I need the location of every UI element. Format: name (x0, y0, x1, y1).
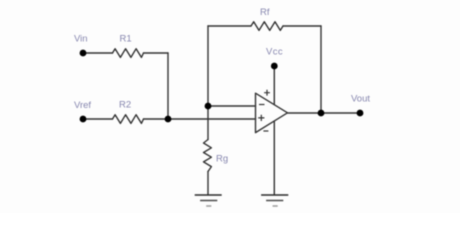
wire top left to Rf (208, 25, 251, 27)
resistor Rg (204, 140, 212, 172)
node output junction (318, 110, 325, 117)
resistor R1 (113, 49, 144, 58)
wire feedback right vertical (320, 26, 322, 113)
svg-text:Rg: Rg (216, 154, 228, 165)
op-amp - input symbol (259, 104, 265, 106)
resistor Rf (251, 22, 283, 31)
ground (Rg) (195, 195, 222, 206)
node A junction (R1/R2) (165, 116, 172, 123)
wire corner down to node A (167, 53, 169, 119)
wire Vref to R2 (83, 118, 113, 120)
resistor R2 (113, 115, 144, 124)
node Vout terminal (357, 110, 364, 117)
wire Vcc to op-amp (273, 66, 275, 105)
wire R1 to corner (144, 52, 169, 54)
op-amp V+ supply symbol (264, 90, 270, 96)
svg-text:R1: R1 (120, 33, 132, 44)
wire feedback left vertical (207, 26, 209, 140)
node Vin terminal (80, 50, 87, 57)
op-amp U1 triangle (256, 93, 288, 132)
wire Rg to ground (207, 172, 209, 195)
svg-text:Vref: Vref (74, 100, 91, 111)
op-amp + input symbol (258, 115, 264, 121)
wire op-amp to ground (273, 122, 275, 195)
wire output (288, 112, 361, 114)
svg-text:Vin: Vin (74, 33, 88, 44)
node Vref terminal (80, 116, 87, 123)
wire Rf to right corner (283, 25, 321, 27)
wire node A to op-amp + input (144, 118, 256, 120)
op-amp V- supply symbol (263, 130, 268, 132)
svg-text:Vcc: Vcc (266, 47, 283, 58)
svg-text:R2: R2 (119, 100, 131, 111)
wire Vin to R1 (83, 52, 113, 54)
node Vcc terminal (271, 63, 278, 70)
svg-text:Vout: Vout (351, 93, 370, 104)
ground (op-amp) (261, 195, 288, 206)
node inverting junction (205, 103, 212, 110)
wire inverting node to op-amp - input (208, 105, 256, 107)
svg-text:Rf: Rf (260, 7, 270, 18)
